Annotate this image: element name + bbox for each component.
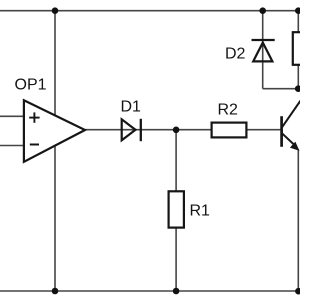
- wire non-inverting input: [0, 115, 24, 117]
- svg-text:OP1: OP1: [15, 77, 47, 94]
- svg-text:R1: R1: [190, 203, 211, 220]
- node bottom rail emitter: [295, 288, 302, 295]
- diode D1 triangle: [122, 119, 136, 140]
- node top rail right: [295, 7, 302, 14]
- transistor Q1 emitter arrow: [291, 143, 299, 151]
- resistor R1: [169, 191, 184, 227]
- wire D2 anode to right node: [263, 88, 300, 90]
- wire bottom supply rail: [0, 290, 300, 292]
- right edge component box (cut off): [293, 32, 305, 65]
- wire emitter to bottom rail: [297, 150, 299, 292]
- svg-text:D1: D1: [121, 99, 142, 116]
- transistor Q1 emitter lead: [282, 133, 296, 146]
- node D2 anode junction: [295, 85, 302, 92]
- diode D1 cathode bar: [140, 119, 142, 141]
- diode D2 triangle: [253, 43, 272, 62]
- wire top supply rail: [0, 10, 300, 12]
- transistor Q1 base bar: [280, 116, 283, 147]
- wire op-amp output to transistor base: [85, 129, 282, 131]
- svg-text:R2: R2: [218, 102, 239, 119]
- op-amp U1 triangle: [24, 100, 85, 162]
- node bottom rail op-amp supply: [52, 288, 59, 295]
- wire D2 branch: [262, 11, 264, 89]
- wire op-amp positive supply: [54, 11, 56, 117]
- op-amp plus input marking: [29, 112, 39, 122]
- node top rail op-amp supply: [52, 7, 59, 14]
- node top rail D2: [259, 7, 266, 14]
- diode D2 cathode bar: [252, 39, 275, 41]
- node junction after D1: [173, 127, 180, 134]
- op-amp minus input marking: [30, 144, 39, 146]
- svg-text:D2: D2: [225, 46, 246, 63]
- wire inverting input: [0, 145, 24, 147]
- resistor R2: [212, 123, 247, 138]
- node bottom rail R1: [173, 288, 180, 295]
- transistor Q1 collector lead: [282, 101, 301, 128]
- wire op-amp negative supply: [54, 146, 56, 291]
- wire R1 branch: [175, 130, 177, 291]
- wire right component branch: [297, 11, 299, 89]
